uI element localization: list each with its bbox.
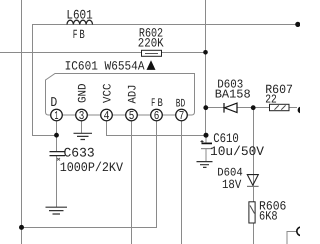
pin 3 circle — [76, 109, 88, 123]
pin 4 circle — [101, 109, 113, 123]
wire: pin5 ADJ down to bottom edge — [131, 120, 133, 244]
pin 1 circle — [51, 109, 63, 123]
svg-text:4: 4 — [104, 109, 110, 123]
wire: R602 net horizontal — [0, 52, 206, 54]
IC601 body outline — [46, 74, 195, 116]
junction: bus/FB return node — [19, 225, 24, 230]
junction: top right terminal — [295, 22, 300, 27]
wire: bottom right connector stub — [287, 232, 297, 244]
ground (C610) — [197, 162, 213, 168]
svg-text:18V: 18V — [222, 178, 242, 192]
wire: pin6 FB down and left to bus junction — [22, 120, 157, 227]
junction: C610 top node — [204, 133, 209, 138]
svg-text:BD: BD — [176, 98, 185, 111]
terminal circle right mid — [298, 107, 305, 114]
resistor R606 — [249, 202, 255, 223]
svg-text:B: B — [79, 28, 85, 42]
svg-text:F: F — [151, 97, 155, 110]
wire: pin7 BD down to bottom edge — [181, 120, 183, 244]
svg-text:VCC: VCC — [101, 83, 114, 103]
wire: L601 net (top wire, bends down at left to pin1 junction) — [33, 25, 299, 136]
svg-text:BA158: BA158 — [215, 87, 251, 101]
pin 7 circle — [176, 109, 188, 123]
junction: pin1/C633 node — [54, 133, 59, 138]
resistor R602 — [142, 50, 162, 56]
wire: left vertical bus — [21, 0, 23, 244]
capacitor C610 (electrolytic) — [201, 140, 213, 149]
wire: zener / R606 vertical — [253, 108, 255, 244]
C633 polarity tick — [57, 158, 60, 161]
svg-text:3: 3 — [79, 109, 85, 123]
svg-text:L601: L601 — [66, 7, 92, 22]
wire: D603 anode/cathode horizontal segments — [206, 107, 298, 109]
svg-text:1000P/2KV: 1000P/2KV — [60, 160, 123, 175]
capacitor C633 — [50, 152, 66, 156]
svg-text:220K: 220K — [138, 37, 164, 51]
svg-text:10u/50V: 10u/50V — [210, 144, 264, 159]
svg-text:B: B — [158, 97, 163, 110]
svg-text:6K8: 6K8 — [259, 210, 278, 224]
zener diode D604 — [247, 175, 259, 187]
svg-text:7: 7 — [179, 109, 185, 123]
terminal circle bottom right — [297, 227, 305, 235]
wire: pin1 to C633 and ground — [56, 120, 58, 207]
wire: pin3 GND stub — [81, 120, 83, 133]
wire: pin4 VCC to C610 junction — [107, 120, 207, 135]
pin 6 circle — [151, 109, 163, 123]
junction: D603/R607/D604 node — [251, 105, 256, 110]
svg-text:F: F — [73, 28, 78, 42]
resistor R607 — [270, 104, 290, 110]
svg-text:5: 5 — [129, 109, 135, 123]
ground (pin3) — [74, 133, 93, 139]
svg-text:IC601 W6554A: IC601 W6554A — [65, 60, 145, 74]
ground (C633) — [46, 207, 68, 214]
svg-text:22: 22 — [265, 93, 277, 107]
pin 5 circle — [126, 109, 138, 123]
wire: C610 stubs — [205, 136, 207, 162]
diode D603 BA158 — [224, 103, 237, 113]
svg-text:GND: GND — [76, 83, 89, 103]
svg-text:6: 6 — [154, 109, 160, 123]
junction: D603 anode node — [203, 105, 208, 110]
wire: vertical line from top to D603/C610 — [205, 0, 207, 136]
junction: R602/vertical net — [203, 50, 208, 55]
svg-text:C633: C633 — [64, 145, 95, 160]
svg-text:D: D — [50, 96, 57, 111]
inductor L601 — [67, 20, 93, 24]
svg-text:ADJ: ADJ — [126, 85, 139, 104]
warning triangle after IC label — [147, 60, 156, 70]
